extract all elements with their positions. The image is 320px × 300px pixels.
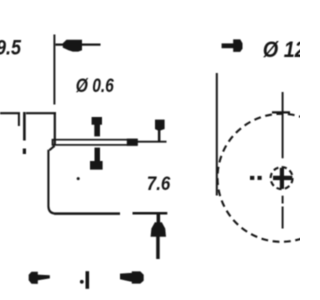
top tangent tick	[272, 111, 290, 113]
center cross vertical	[280, 168, 284, 189]
bottom dim decimal dot	[80, 280, 84, 284]
pin lead outline	[53, 140, 137, 145]
big dashed circle (buzzer outline)	[218, 114, 320, 242]
arrow down onto pin reference line (7.6 dim top)	[155, 120, 165, 142]
pin solid tip	[127, 139, 138, 146]
bottom dim value bar (digit 1 / extension)	[86, 271, 90, 289]
small dashed circle (sound hole)	[271, 167, 293, 189]
svg-text:7.6: 7.6	[147, 174, 171, 195]
arrow down at pin top (Ø0.6 dim)	[92, 117, 102, 136]
arrow up onto bottom reference line (7.6 dim bottom)	[151, 215, 166, 260]
body right edge upper	[54, 112, 56, 145]
wire top edge left segment	[0, 112, 20, 114]
bottom reference line segment 1	[54, 212, 120, 215]
pin reference line to 7.6 dimension	[138, 141, 167, 143]
tick small vertical notch	[18, 113, 20, 126]
bottom reference line segment 2	[133, 212, 168, 215]
vertical centerline lower 2	[282, 207, 284, 229]
speck	[77, 177, 80, 180]
center cross horizontal	[273, 176, 292, 180]
horizontal centerline dashes	[250, 176, 254, 180]
body left lower edge	[48, 150, 54, 214]
dot below slot line	[23, 149, 26, 155]
svg-text:Ø 12: Ø 12	[263, 37, 300, 62]
extension line for 9.5	[53, 35, 55, 105]
vertical centerline lower	[282, 196, 284, 204]
wire top edge right segment	[26, 112, 56, 114]
svg-text:Ø 0.6: Ø 0.6	[76, 75, 114, 97]
chamfer below pin	[49, 146, 54, 150]
svg-text:9.5: 9.5	[0, 36, 21, 59]
dim arrow for Ø12 (points right)	[222, 43, 234, 48]
arrow up at pin bottom (Ø0.6 dim)	[90, 148, 103, 170]
dimension line 9.5 with left arrowhead	[56, 43, 101, 45]
vertical centerline upper	[282, 92, 284, 158]
dash vertical slot line	[23, 112, 26, 141]
bottom dim arrow right (points right)	[120, 273, 132, 282]
bottom dim arrow left (points left)	[29, 272, 38, 284]
extension line left of circle	[216, 73, 218, 196]
